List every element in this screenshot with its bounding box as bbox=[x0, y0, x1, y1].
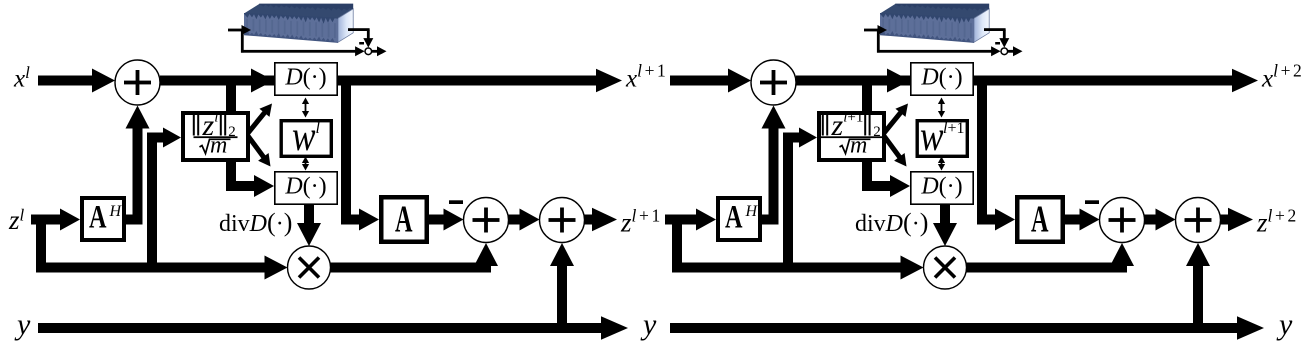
svg-text:y: y bbox=[14, 308, 31, 341]
svg-text:H: H bbox=[109, 203, 123, 220]
svg-text:zl+1: zl+1 bbox=[620, 206, 663, 238]
svg-text:divD(·): divD(·) bbox=[219, 208, 292, 237]
svg-text:divD(·): divD(·) bbox=[855, 208, 928, 237]
svg-text:xl+2: xl+2 bbox=[1261, 61, 1304, 93]
svg-text:y: y bbox=[640, 308, 657, 341]
svg-text:D(·): D(·) bbox=[920, 174, 962, 200]
svg-text:D(·): D(·) bbox=[284, 174, 326, 200]
svg-text:A: A bbox=[725, 200, 743, 236]
svg-text:xl: xl bbox=[13, 63, 30, 93]
svg-text:m: m bbox=[850, 133, 867, 159]
svg-text:w: w bbox=[292, 114, 316, 160]
svg-text:H: H bbox=[745, 203, 759, 220]
svg-text:D(·): D(·) bbox=[920, 65, 962, 91]
svg-text:y: y bbox=[1276, 308, 1293, 341]
svg-text:l: l bbox=[316, 120, 321, 137]
svg-text:m: m bbox=[210, 133, 227, 159]
svg-text:D(·): D(·) bbox=[284, 65, 326, 91]
svg-text:A: A bbox=[89, 200, 107, 236]
svg-text:w: w bbox=[920, 114, 944, 160]
svg-text:zl+2: zl+2 bbox=[1256, 206, 1299, 238]
svg-text:zl: zl bbox=[8, 205, 25, 235]
svg-text:A: A bbox=[1031, 199, 1049, 241]
svg-text:A: A bbox=[395, 199, 413, 241]
svg-text:xl+1: xl+1 bbox=[625, 61, 668, 93]
svg-text:l+1: l+1 bbox=[943, 120, 964, 137]
